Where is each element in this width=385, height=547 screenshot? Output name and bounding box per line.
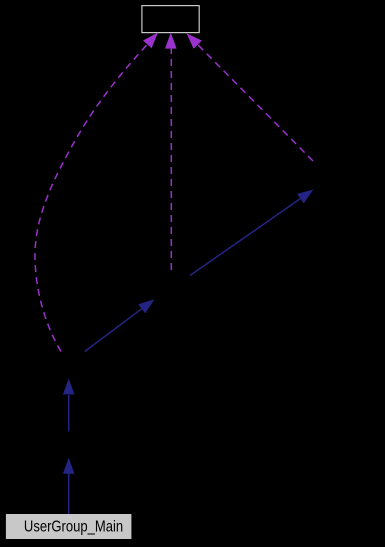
- node: top box (empty): [142, 6, 199, 33]
- arrowhead A -> B: [63, 379, 75, 395]
- wire: purple dashed curve node B -> top box (left): [35, 44, 147, 351]
- node: UserGroup_Main box: [6, 514, 131, 539]
- wire: purple dashed edge node D -> top box (diagonal): [198, 45, 313, 161]
- arrowhead C -> D: [297, 190, 313, 204]
- arrowhead UserGroup_Main -> A: [63, 458, 75, 474]
- svg-text:UserGroup_Main: UserGroup_Main: [24, 518, 123, 536]
- arrowhead B -> C: [138, 299, 154, 313]
- wire: blue edge node B -> node C (diagonal): [85, 309, 142, 352]
- wire: blue edge node A -> node B (vertical): [68, 395, 70, 431]
- arrowhead D -> top box: [187, 33, 202, 48]
- wire: purple dashed edge node C -> top box (vertical): [170, 48, 172, 270]
- arrowhead B -> top box: [143, 33, 158, 49]
- arrowhead C -> top box: [165, 33, 177, 49]
- wire: blue edge UserGroup_Main -> node A (vertical): [68, 473, 70, 514]
- wire: blue edge node C -> node D (diagonal): [190, 199, 300, 276]
